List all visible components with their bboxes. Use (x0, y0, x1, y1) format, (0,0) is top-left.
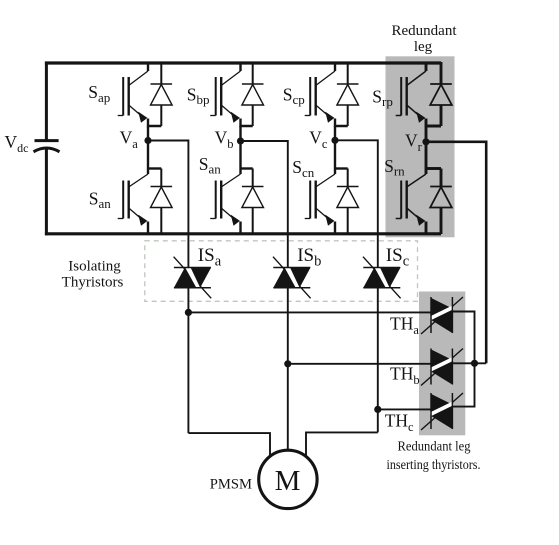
transistor Sap (IGBT, top switch) (118, 62, 162, 140)
node: phase a / THa junction (185, 309, 192, 316)
wire: THa output to right bus (452, 312, 474, 364)
transistor Sbp (IGBT, top switch) (210, 62, 253, 140)
wire: left DC link (upper) (45, 62, 48, 140)
transistor Scp (IGBT, top switch) (305, 62, 348, 140)
svg-text:M: M (275, 465, 301, 497)
svg-text:inserting thyristors.: inserting thyristors. (387, 457, 481, 472)
wire: node Va to isolating thyristor ISa (148, 141, 188, 268)
svg-text:Thyristors: Thyristors (62, 275, 124, 291)
wire: phase c to motor (306, 432, 378, 457)
wire: phase a junction to THa (188, 311, 431, 313)
node Vc (331, 137, 338, 144)
diode Dan (freewheeling, antiparallel) (151, 169, 173, 235)
transistor Sbn (IGBT, bottom switch) (210, 141, 253, 234)
svg-text:Redundant leg: Redundant leg (398, 439, 471, 454)
diode Dap (freewheeling, antiparallel) (151, 62, 173, 126)
wire: node Vb to isolating thyristor ISb (241, 141, 288, 268)
svg-text:PMSM: PMSM (210, 476, 252, 492)
thyristor THb (redundant-leg inserting triac) (421, 349, 463, 386)
svg-text:Redundant: Redundant (392, 23, 458, 39)
motor PMSM (M) (259, 450, 317, 508)
capacitor Vdc (DC-link) (34, 141, 60, 152)
thyristor ISa (isolating triac) (174, 257, 212, 299)
diode Dbp (freewheeling, antiparallel) (242, 62, 264, 126)
diode Dcn (freewheeling, antiparallel) (337, 169, 359, 235)
wire: phase a to motor (188, 433, 270, 458)
thyristor ISb (isolating triac) (273, 257, 311, 299)
transistor Srp (IGBT, top switch) (396, 62, 441, 140)
wire: node Vr to right-side bus down to TH junction (426, 142, 486, 363)
node Va (144, 137, 151, 144)
isolating thyristors dashed box (145, 241, 418, 301)
svg-text:Isolating: Isolating (68, 259, 121, 275)
redundant-leg inserting thyristors shaded box (419, 292, 465, 436)
wire: THb output to right bus (452, 362, 486, 364)
thyristor ISc (isolating triac) (363, 257, 401, 299)
wire: negative DC bus (bottom) (45, 232, 441, 235)
node Vb (237, 137, 244, 144)
transistor Scn (IGBT, bottom switch) (305, 141, 348, 234)
diode Dcp (freewheeling, antiparallel) (337, 62, 359, 126)
thyristor THc (redundant-leg inserting triac) (421, 393, 463, 430)
node Vr (422, 138, 429, 145)
transistor San (IGBT, bottom switch) (118, 141, 162, 234)
wire: ISc output down (377, 288, 379, 433)
wire: ISb output down to motor phase b (287, 288, 289, 451)
node: phase c / THc junction (374, 406, 381, 413)
wire: node Vc to isolating thyristor ISc (335, 140, 378, 267)
wire: left DC link (lower) (45, 150, 48, 236)
node: phase b / THb junction (284, 360, 291, 367)
wire: phase b junction to THb (288, 363, 431, 365)
transistor Srn (IGBT, bottom switch) (396, 141, 441, 234)
wire: phase c junction to THc (378, 408, 431, 410)
wire: THc output to right bus (452, 363, 474, 406)
wire: positive DC bus (top) (45, 61, 441, 64)
diode Dbn (freewheeling, antiparallel) (242, 169, 264, 235)
diode Drn (freewheeling, antiparallel) (430, 169, 452, 235)
wire: ISa output down + junction to motor phase a (187, 288, 189, 433)
diode Drp (freewheeling, antiparallel) (430, 62, 452, 126)
redundant leg shaded box (386, 56, 455, 237)
node: TH common junction (471, 360, 478, 367)
svg-text:leg: leg (414, 39, 433, 55)
thyristor THa (redundant-leg inserting triac) (421, 297, 463, 334)
